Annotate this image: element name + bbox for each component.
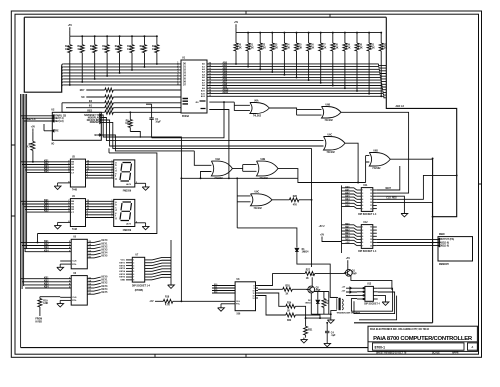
svg-text:13: 13 bbox=[253, 298, 255, 300]
gate E out to F bbox=[232, 165, 256, 172]
revision box bbox=[468, 343, 478, 350]
svg-text:KEY3: KEY3 bbox=[102, 286, 109, 288]
svg-text:14: 14 bbox=[370, 195, 372, 198]
svg-text:GND: GND bbox=[120, 280, 125, 282]
R31 to ground bbox=[306, 317, 331, 319]
svg-text:3.3K: 3.3K bbox=[249, 47, 254, 49]
resistor R19 bottom left bbox=[40, 296, 60, 298]
ground bbox=[218, 306, 225, 311]
svg-text:KYBD: KYBD bbox=[35, 321, 42, 323]
svg-text:R18: R18 bbox=[165, 297, 170, 299]
svg-text:KEY4: KEY4 bbox=[119, 270, 125, 273]
svg-text:AB2 1-6: AB2 1-6 bbox=[396, 105, 405, 108]
svg-text:KB3: KB3 bbox=[44, 284, 49, 286]
svg-text:AB2: AB2 bbox=[223, 67, 228, 70]
Q2 base wire with R28 bbox=[258, 288, 283, 290]
svg-text:74LS02: 74LS02 bbox=[327, 151, 336, 154]
svg-text:3.3K: 3.3K bbox=[285, 47, 290, 49]
gate G out through R26 bbox=[272, 199, 289, 201]
svg-text:S13: S13 bbox=[214, 291, 217, 293]
transducer speaker bbox=[330, 296, 337, 298]
svg-text:AB4: AB4 bbox=[223, 72, 228, 75]
svg-text:I/O: I/O bbox=[51, 144, 54, 146]
svg-text:15: 15 bbox=[370, 193, 372, 195]
U2 to mid long wires bbox=[101, 115, 181, 301]
resistor R8 oscillator bbox=[129, 112, 131, 119]
svg-text:10pF: 10pF bbox=[155, 121, 161, 123]
svg-text:10K: 10K bbox=[65, 49, 70, 51]
svg-text:OUTPUT (PA): OUTPUT (PA) bbox=[440, 238, 455, 241]
gate U9A bbox=[211, 161, 232, 176]
ground bbox=[135, 222, 146, 224]
svg-text:13: 13 bbox=[370, 199, 372, 201]
svg-text:7: 7 bbox=[362, 208, 363, 210]
svg-text:AB2: AB2 bbox=[345, 192, 350, 195]
svg-text:3.3K: 3.3K bbox=[358, 47, 363, 49]
digit segments bbox=[120, 202, 132, 221]
gate U6D bbox=[369, 153, 390, 167]
svg-text:KEY5: KEY5 bbox=[102, 256, 109, 258]
resistor R29 3.3K (right bank) bbox=[344, 32, 346, 34]
resistor R11 10K (left bank) bbox=[81, 35, 83, 37]
svg-text:NON: NON bbox=[95, 135, 100, 137]
svg-text:+5V: +5V bbox=[310, 275, 315, 277]
svg-text:AB2(1-6): AB2(1-6) bbox=[440, 241, 450, 244]
resistor R15 10K (left bank) bbox=[131, 35, 133, 37]
svg-text:3: 3 bbox=[362, 233, 363, 235]
svg-text:N/RESET: N/RESET bbox=[90, 122, 100, 124]
svg-text:AB1: AB1 bbox=[223, 64, 228, 67]
socket2 right wires to memory bbox=[377, 238, 438, 240]
svg-text:11: 11 bbox=[370, 205, 372, 207]
svg-text:WAIT: WAIT bbox=[385, 187, 391, 190]
svg-text:13: 13 bbox=[370, 236, 372, 238]
Q1 emitter loop bbox=[351, 276, 392, 290]
svg-text:KB2: KB2 bbox=[44, 203, 49, 205]
capacitor C1 oscillator bbox=[151, 104, 153, 118]
U1 pin wire to mid bbox=[209, 110, 229, 179]
svg-text:15: 15 bbox=[370, 230, 372, 232]
title block bbox=[368, 326, 477, 351]
svg-text:1: 1 bbox=[133, 260, 134, 262]
svg-text:SCALE: SCALE bbox=[432, 352, 440, 355]
address bus AB0-AB11 bbox=[207, 63, 379, 65]
diode D1 bbox=[295, 248, 299, 251]
svg-text:KEY2: KEY2 bbox=[102, 246, 109, 248]
gate E inputs bbox=[194, 151, 211, 165]
svg-text:1N914: 1N914 bbox=[302, 251, 309, 254]
svg-text:KEY5: KEY5 bbox=[102, 292, 109, 294]
IC U8 bbox=[235, 282, 255, 311]
display driver U3 7448 bbox=[70, 159, 85, 187]
svg-text:A: A bbox=[472, 346, 474, 349]
ground bbox=[401, 212, 408, 217]
nested loop wires bbox=[354, 292, 395, 314]
svg-text:3.3K: 3.3K bbox=[322, 47, 327, 49]
svg-text:U12: U12 bbox=[363, 222, 368, 224]
svg-text:11: 11 bbox=[370, 242, 372, 244]
svg-text:KB1: KB1 bbox=[44, 160, 49, 162]
svg-text:KB2: KB2 bbox=[44, 280, 49, 282]
U7 right fan to vertical bbox=[145, 259, 152, 261]
svg-text:U6A: U6A bbox=[254, 99, 259, 102]
svg-text:4: 4 bbox=[362, 198, 363, 201]
svg-text:KB3: KB3 bbox=[44, 205, 49, 207]
socket U12 bbox=[361, 225, 373, 249]
bottom border line bbox=[21, 347, 368, 349]
svg-text:3.3K: 3.3K bbox=[237, 47, 242, 49]
gate A inputs bbox=[234, 102, 250, 111]
resistor R29 bbox=[258, 293, 286, 306]
svg-text:14: 14 bbox=[370, 232, 372, 235]
svg-text:3: 3 bbox=[133, 265, 134, 267]
svg-text:AB0: AB0 bbox=[223, 62, 228, 65]
svg-text:5: 5 bbox=[362, 239, 363, 241]
svg-text:1N914: 1N914 bbox=[305, 301, 312, 304]
capacitor C4 bbox=[354, 322, 433, 324]
resistor R28 3.3K (right bank) bbox=[332, 32, 334, 34]
resistor R31 3.3K (right bank) bbox=[368, 32, 370, 34]
ground bbox=[58, 182, 71, 184]
resistor R17 10K (left bank) bbox=[156, 35, 158, 37]
Q2 emitter down bbox=[310, 293, 312, 314]
svg-text:10Ω: 10Ω bbox=[325, 303, 329, 305]
resistor R32 bbox=[258, 296, 286, 316]
memory block U10 bbox=[438, 237, 473, 261]
socket U13 bottom right bbox=[365, 286, 374, 301]
svg-text:+5V 2: +5V 2 bbox=[319, 226, 326, 228]
gate C output bbox=[345, 143, 358, 182]
svg-text:7448: 7448 bbox=[72, 228, 78, 231]
svg-text:AB9: AB9 bbox=[223, 86, 228, 89]
svg-text:KEY1: KEY1 bbox=[119, 262, 125, 264]
left wire bundle bbox=[20, 94, 22, 348]
gate U6B bbox=[322, 107, 342, 119]
svg-text:R27: R27 bbox=[306, 269, 311, 271]
svg-text:1: 1 bbox=[362, 227, 363, 229]
svg-text:KEY2: KEY2 bbox=[119, 265, 125, 267]
svg-text:3.3K: 3.3K bbox=[261, 47, 266, 49]
svg-text:FND359: FND359 bbox=[123, 230, 132, 232]
svg-text:6: 6 bbox=[362, 205, 363, 207]
svg-text:(8700B): (8700B) bbox=[135, 290, 144, 292]
svg-text:KEY1: KEY1 bbox=[102, 243, 109, 245]
svg-text:+5V: +5V bbox=[31, 126, 36, 128]
svg-text:2: 2 bbox=[362, 230, 363, 232]
ground bbox=[60, 260, 71, 262]
socket wires left bbox=[346, 288, 357, 295]
thermistor R30 bbox=[323, 292, 325, 299]
gate U9B bbox=[257, 161, 279, 176]
svg-text:3.3K: 3.3K bbox=[382, 47, 387, 49]
7-segment display FND359 bbox=[114, 160, 135, 187]
svg-text:R32: R32 bbox=[287, 320, 292, 322]
svg-text:16: 16 bbox=[370, 190, 372, 192]
svg-text:10K: 10K bbox=[90, 49, 95, 51]
svg-text:AB1: AB1 bbox=[345, 189, 350, 192]
svg-text:3.3K: 3.3K bbox=[346, 47, 351, 49]
svg-text:U6B: U6B bbox=[326, 104, 331, 106]
svg-text:U6D: U6D bbox=[373, 150, 378, 152]
oscillator loop wire bbox=[209, 101, 234, 103]
display driver U4 7448 bbox=[70, 199, 85, 227]
clock line phi2 with resistor bbox=[62, 102, 105, 104]
U2 left pins bbox=[21, 115, 53, 117]
svg-text:3.3K: 3.3K bbox=[273, 47, 278, 49]
svg-text:APPR: APPR bbox=[452, 352, 459, 355]
border tick at x330 bbox=[329, 14, 331, 17]
gate D inputs bbox=[366, 156, 370, 183]
svg-text:R28: R28 bbox=[285, 285, 290, 287]
svg-text:DB2: DB2 bbox=[345, 230, 350, 232]
ground bbox=[170, 240, 172, 283]
svg-text:MEM: MEM bbox=[439, 234, 444, 236]
svg-text:KB3: KB3 bbox=[44, 247, 49, 249]
svg-text:.1µF: .1µF bbox=[331, 335, 336, 337]
resistor R30 3.3K (right bank) bbox=[356, 32, 358, 34]
svg-text:KEY3: KEY3 bbox=[102, 250, 109, 252]
svg-text:PAIA ELECTRONICS INC. OKLAHOM: PAIA ELECTRONICS INC. OKLAHOMA CITY, OK … bbox=[370, 328, 430, 331]
svg-text:74LS02: 74LS02 bbox=[372, 167, 381, 170]
svg-text:RDY: RDY bbox=[80, 90, 85, 92]
svg-text:R24: R24 bbox=[285, 44, 290, 47]
svg-text:PNP: PNP bbox=[352, 273, 357, 275]
svg-text:DIP SOCKET 1-4: DIP SOCKET 1-4 bbox=[358, 250, 377, 253]
svg-text:R26: R26 bbox=[293, 196, 298, 198]
svg-text:LA/70: LA/70 bbox=[126, 222, 131, 225]
svg-text:10K: 10K bbox=[140, 49, 145, 51]
svg-text:10K: 10K bbox=[102, 49, 107, 51]
svg-text:47K: 47K bbox=[293, 204, 298, 207]
svg-text:+5V: +5V bbox=[320, 234, 325, 236]
svg-text:DB5: DB5 bbox=[345, 239, 350, 241]
svg-text:AB8: AB8 bbox=[223, 83, 228, 86]
svg-text:AB11: AB11 bbox=[223, 91, 229, 94]
keyboard IC U6 bbox=[71, 276, 87, 306]
svg-text:DB2(1-6): DB2(1-6) bbox=[54, 121, 64, 123]
svg-text:TRE: TRE bbox=[54, 131, 59, 133]
resistor R27 3.3K (right bank) bbox=[320, 32, 322, 34]
resistor R26 3.3K (right bank) bbox=[308, 32, 310, 34]
svg-text:+5V: +5V bbox=[68, 25, 73, 27]
svg-text:KB4: KB4 bbox=[44, 286, 49, 289]
svg-text:VCC: VCC bbox=[120, 260, 125, 262]
svg-text:+5V: +5V bbox=[234, 22, 239, 24]
svg-text:8700-1: 8700-1 bbox=[375, 345, 386, 349]
transistor Q1 bbox=[345, 269, 352, 276]
svg-text:KB4: KB4 bbox=[44, 168, 49, 171]
svg-text:CLS: CLS bbox=[72, 261, 77, 263]
microprocessor U1 6503 bbox=[181, 60, 207, 113]
U2 right pins bbox=[100, 114, 102, 116]
relaxation loop box bbox=[311, 292, 331, 315]
svg-text:U11: U11 bbox=[363, 185, 368, 187]
svg-text:7: 7 bbox=[133, 277, 134, 279]
wire to diode D1 bbox=[237, 228, 297, 248]
U1 bottom-right pin bars bbox=[200, 101, 206, 109]
svg-text:AB3: AB3 bbox=[223, 70, 228, 73]
svg-text:10: 10 bbox=[370, 245, 372, 247]
svg-text:KEY4: KEY4 bbox=[102, 252, 109, 255]
svg-text:AB5: AB5 bbox=[345, 201, 350, 204]
7-segment display FND359 bbox=[114, 199, 135, 226]
ground bbox=[135, 182, 146, 184]
svg-text:10K: 10K bbox=[127, 49, 132, 51]
resistor R22 3.3K (right bank) bbox=[259, 32, 261, 34]
U1 SO line with resistor bbox=[86, 96, 105, 98]
ground bbox=[60, 296, 71, 298]
resistor R23 3.3K (right bank) bbox=[271, 32, 273, 34]
svg-text:AB3: AB3 bbox=[345, 195, 350, 198]
svg-text:U6C: U6C bbox=[328, 134, 333, 136]
svg-text:KB5: KB5 bbox=[44, 171, 49, 173]
svg-text:-12V: -12V bbox=[341, 290, 346, 292]
svg-text:12: 12 bbox=[370, 239, 372, 241]
keyboard IC U5 bbox=[71, 239, 87, 268]
svg-text:U9B: U9B bbox=[261, 159, 266, 161]
svg-text:16: 16 bbox=[370, 227, 372, 229]
resistor R24 3.3K (right bank) bbox=[283, 32, 285, 34]
svg-text:DIP SOCKET 1-4: DIP SOCKET 1-4 bbox=[358, 213, 377, 216]
svg-text:74LS02: 74LS02 bbox=[253, 115, 262, 118]
gate D output to collector bbox=[390, 158, 432, 160]
svg-text:10K: 10K bbox=[115, 49, 120, 51]
svg-text:+5V: +5V bbox=[345, 242, 350, 244]
svg-text:KB2: KB2 bbox=[44, 244, 49, 246]
gate U6C bbox=[324, 137, 346, 151]
svg-text:KB4: KB4 bbox=[44, 207, 49, 210]
svg-text:2: 2 bbox=[133, 262, 134, 264]
address bus collector down right side bbox=[386, 17, 456, 217]
resistor R21 3.3K (right bank) bbox=[247, 32, 249, 34]
svg-text:KB2: KB2 bbox=[44, 163, 49, 165]
svg-text:4: 4 bbox=[362, 235, 363, 238]
svg-text:AB4: AB4 bbox=[345, 198, 350, 201]
data bus collector bbox=[24, 17, 61, 92]
svg-text:6: 6 bbox=[362, 242, 363, 244]
svg-text:DB1: DB1 bbox=[345, 227, 350, 229]
svg-text:KEY0: KEY0 bbox=[102, 240, 109, 242]
svg-text:8: 8 bbox=[133, 280, 134, 282]
svg-text:DIP SOCKET 1-4: DIP SOCKET 1-4 bbox=[132, 285, 151, 288]
svg-text:R31: R31 bbox=[308, 329, 313, 331]
U8 right pin stubs bbox=[256, 285, 259, 287]
svg-text:AB2(7-1): AB2(7-1) bbox=[54, 117, 64, 120]
svg-text:KB1: KB1 bbox=[44, 241, 49, 243]
svg-text:DB4: DB4 bbox=[345, 235, 350, 238]
U1 RDY line with resistor bbox=[86, 89, 105, 91]
diode D2 bbox=[317, 292, 319, 300]
svg-text:1: 1 bbox=[362, 190, 363, 192]
gate B output down to socket1 bbox=[341, 112, 409, 193]
svg-text:DB3: DB3 bbox=[345, 233, 350, 235]
data bus DB0-DB7 bbox=[63, 63, 181, 65]
svg-text:3.3K: 3.3K bbox=[334, 47, 339, 49]
bus collector vertical to bottom bbox=[432, 158, 434, 322]
svg-text:KEY1: KEY1 bbox=[102, 280, 109, 282]
svg-text:4: 4 bbox=[133, 267, 134, 270]
svg-text:12: 12 bbox=[370, 202, 372, 204]
svg-text:3.3K: 3.3K bbox=[297, 47, 302, 49]
svg-text:POL: POL bbox=[72, 264, 77, 266]
svg-text:6503A: 6503A bbox=[182, 115, 189, 118]
svg-text:74LS02: 74LS02 bbox=[325, 119, 334, 122]
svg-text:SO: SO bbox=[81, 97, 85, 99]
svg-text:R29: R29 bbox=[287, 303, 292, 305]
gate F output wire bbox=[278, 169, 298, 179]
svg-text:KEY4: KEY4 bbox=[102, 288, 109, 291]
resistor R10 10K (left bank) bbox=[69, 36, 71, 45]
svg-text:KEY6: KEY6 bbox=[119, 277, 125, 279]
svg-text:7448: 7448 bbox=[72, 188, 78, 191]
display loop wire bbox=[38, 148, 157, 242]
gate U6A bbox=[250, 103, 270, 114]
svg-text:3.3K: 3.3K bbox=[370, 47, 375, 49]
top heavy bus line bbox=[24, 16, 386, 18]
svg-text:KEY5: KEY5 bbox=[119, 274, 125, 276]
long mid wire bbox=[181, 178, 365, 182]
svg-text:TRANSDUCER SPEAKER: TRANSDUCER SPEAKER bbox=[337, 312, 361, 315]
svg-text:5: 5 bbox=[133, 271, 134, 273]
svg-text:KB1: KB1 bbox=[44, 277, 49, 279]
svg-text:AB5: AB5 bbox=[223, 75, 228, 78]
svg-text:1K: 1K bbox=[306, 278, 309, 280]
svg-text:6: 6 bbox=[133, 274, 134, 276]
svg-text:1M: 1M bbox=[125, 123, 128, 125]
ground below speaker bbox=[327, 318, 334, 323]
pull-up rail left bbox=[69, 30, 71, 36]
clock line phi1 with resistor bbox=[66, 107, 105, 109]
svg-text:U9C: U9C bbox=[255, 192, 260, 194]
gate U9C bbox=[251, 194, 273, 206]
transistor Q2 bbox=[308, 286, 315, 293]
svg-text:10K: 10K bbox=[152, 49, 157, 51]
svg-text:AB0: AB0 bbox=[345, 186, 350, 189]
svg-text:SHEET REVISED 10 OCT 78: SHEET REVISED 10 OCT 78 bbox=[376, 353, 407, 355]
svg-text:DB0: DB0 bbox=[345, 224, 350, 226]
socket1 right wires bbox=[377, 166, 400, 190]
svg-text:PAiA 8700 COMPUTER/CONTROLLER: PAiA 8700 COMPUTER/CONTROLLER bbox=[373, 336, 473, 342]
svg-text:4.7K: 4.7K bbox=[165, 303, 170, 306]
Q1 base wire with R27 bbox=[258, 273, 273, 285]
gate G inputs bbox=[237, 196, 250, 202]
svg-text:74LS02: 74LS02 bbox=[254, 207, 263, 210]
svg-text:MEMORY: MEMORY bbox=[439, 264, 450, 266]
resistor R32 3.3K (right bank) bbox=[380, 32, 382, 34]
svg-text:CLS_RES: CLS_RES bbox=[386, 198, 397, 200]
svg-text:AB6: AB6 bbox=[345, 204, 350, 207]
svg-text:KB1: KB1 bbox=[44, 200, 49, 202]
resistor R20 3.3K (right bank) bbox=[235, 33, 237, 43]
socket bus vertical bbox=[341, 185, 343, 253]
svg-text:FROM: FROM bbox=[35, 319, 42, 321]
svg-text:KB4: KB4 bbox=[44, 249, 49, 252]
svg-text:5: 5 bbox=[362, 202, 363, 204]
svg-text:KEY0: KEY0 bbox=[102, 277, 109, 279]
gate A out to gate B bbox=[269, 108, 321, 115]
svg-text:AB10: AB10 bbox=[223, 89, 230, 92]
svg-text:+5V: +5V bbox=[149, 301, 154, 303]
resistor R13 10K (left bank) bbox=[106, 35, 108, 37]
svg-text:FND359: FND359 bbox=[123, 190, 132, 192]
svg-text:1K: 1K bbox=[285, 294, 288, 296]
drawing number box bbox=[373, 343, 465, 350]
svg-text:+5V: +5V bbox=[346, 258, 351, 260]
svg-text:DIP SOCKET 4: DIP SOCKET 4 bbox=[364, 303, 380, 306]
svg-text:POL: POL bbox=[72, 300, 77, 302]
svg-text:3: 3 bbox=[362, 196, 363, 198]
svg-text:6.8K: 6.8K bbox=[43, 303, 48, 305]
